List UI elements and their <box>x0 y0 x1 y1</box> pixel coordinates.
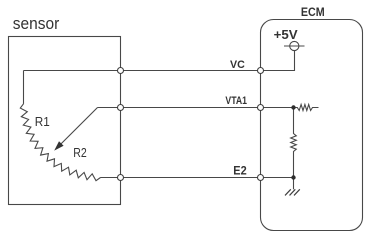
junction dot VTA1 <box>291 105 295 109</box>
terminal circle ECM VTA1 <box>258 105 264 111</box>
terminal circle sensor E2 <box>118 175 124 181</box>
sensor box <box>9 37 121 205</box>
terminal circle ECM VC <box>258 68 264 74</box>
wire VC drop to R1 <box>23 71 25 104</box>
ground lead <box>293 178 295 190</box>
svg-text:VTA1: VTA1 <box>225 95 247 107</box>
wiper arrow R2 shaft <box>61 108 98 145</box>
wire VTA1 <box>98 107 294 109</box>
ECM box <box>261 20 363 231</box>
svg-text:VC: VC <box>230 59 245 71</box>
ground symbol <box>285 189 300 195</box>
wiper arrowhead <box>54 141 63 150</box>
resistor R4 vertical VTA1-E2 <box>291 108 297 178</box>
svg-text:sensor: sensor <box>13 14 60 33</box>
resistor R1 curved zigzag <box>20 104 100 181</box>
+5V source circle <box>284 41 305 50</box>
svg-text:+5V: +5V <box>274 27 298 42</box>
wire E2 <box>101 177 294 179</box>
junction dot E2 <box>291 175 295 179</box>
terminal circle ECM E2 <box>258 175 264 181</box>
svg-text:E2: E2 <box>233 164 247 178</box>
wire VC net <box>24 51 295 71</box>
svg-text:R2: R2 <box>73 145 87 160</box>
terminal circle sensor VC <box>118 68 124 74</box>
terminal circle sensor VTA1 <box>118 105 124 111</box>
svg-text:R1: R1 <box>35 114 50 129</box>
resistor R3 horizontal on VTA1 <box>294 105 319 111</box>
svg-text:ECM: ECM <box>301 5 325 19</box>
